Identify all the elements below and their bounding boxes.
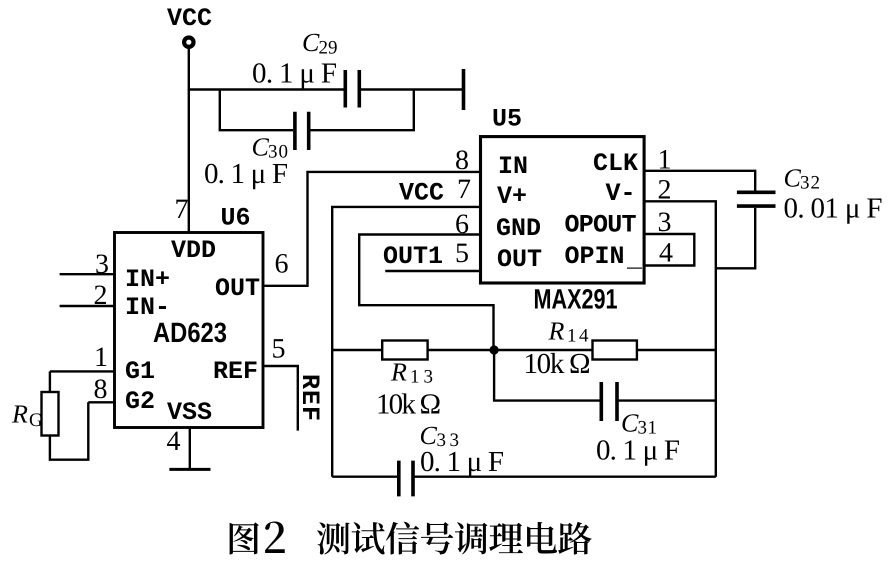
svg-text:R: R (390, 358, 407, 387)
svg-text:6: 6 (455, 209, 469, 240)
svg-text:OUT1: OUT1 (383, 242, 443, 271)
svg-text:U5: U5 (492, 105, 522, 134)
svg-text:1: 1 (94, 342, 108, 373)
svg-text:5: 5 (272, 334, 286, 365)
svg-text:14: 14 (567, 326, 591, 347)
svg-text:10k Ω: 10k Ω (524, 348, 591, 380)
svg-text:8: 8 (94, 374, 108, 405)
svg-text:V-: V- (606, 179, 636, 208)
svg-text:10k Ω: 10k Ω (376, 389, 441, 421)
svg-text:1: 1 (658, 145, 672, 176)
svg-text:VCC: VCC (167, 4, 212, 33)
svg-text:0. 1 μ F: 0. 1 μ F (596, 435, 680, 467)
svg-text:IN+: IN+ (125, 265, 170, 294)
svg-text:2: 2 (658, 175, 672, 206)
svg-text:U6: U6 (221, 204, 251, 233)
svg-text:5: 5 (455, 238, 469, 269)
svg-text:C: C (621, 409, 639, 438)
svg-text:0. 1 μ F: 0. 1 μ F (204, 158, 288, 190)
svg-text:OUT: OUT (215, 274, 260, 303)
svg-text:V+: V+ (497, 182, 527, 211)
svg-text:13: 13 (410, 367, 437, 388)
svg-text:VCC: VCC (399, 179, 444, 208)
svg-text:0. 1 μ F: 0. 1 μ F (420, 446, 504, 478)
svg-text:6: 6 (275, 249, 289, 280)
svg-text:MAX291: MAX291 (534, 284, 618, 315)
svg-text:C: C (302, 28, 320, 57)
svg-text:CLK: CLK (593, 149, 638, 178)
svg-text:7: 7 (175, 194, 189, 225)
svg-text:2: 2 (94, 280, 108, 311)
svg-text:REF: REF (213, 357, 258, 386)
svg-text:32: 32 (800, 173, 821, 194)
svg-text:8: 8 (455, 145, 469, 176)
svg-text:VSS: VSS (167, 398, 212, 427)
svg-text:R: R (11, 400, 28, 429)
svg-text:OUT: OUT (497, 245, 542, 274)
svg-text:VDD: VDD (171, 236, 216, 265)
svg-text:3: 3 (658, 207, 672, 238)
svg-text:7: 7 (457, 174, 471, 205)
svg-text:0. 01 μ F: 0. 01 μ F (784, 193, 883, 225)
svg-text:G2: G2 (125, 387, 155, 416)
svg-text:AD623: AD623 (153, 317, 227, 348)
svg-text:GND: GND (496, 214, 541, 243)
svg-text:OPIN: OPIN (565, 242, 625, 271)
svg-text:3: 3 (95, 249, 109, 280)
svg-text:G1: G1 (125, 357, 155, 386)
svg-text:IN: IN (498, 152, 528, 181)
svg-text:G: G (29, 410, 43, 431)
svg-text:_: _ (626, 245, 643, 274)
svg-text:29: 29 (319, 38, 338, 59)
svg-text:4: 4 (167, 426, 181, 457)
svg-text:REF: REF (295, 374, 324, 421)
svg-text:R: R (548, 317, 565, 346)
svg-text:0. 1 μ F: 0. 1 μ F (252, 58, 337, 90)
svg-text:OPOUT: OPOUT (565, 211, 637, 240)
svg-text:C: C (784, 164, 802, 193)
svg-text:4: 4 (659, 238, 673, 269)
